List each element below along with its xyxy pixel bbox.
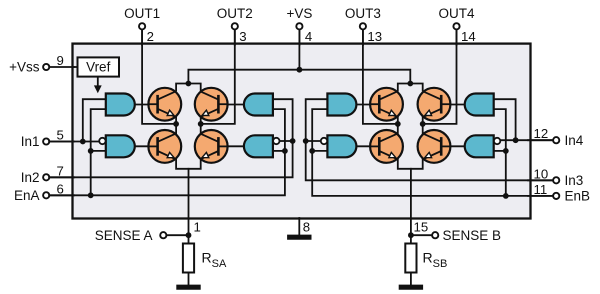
svg-text:EnA: EnA xyxy=(14,188,40,203)
transistor Q5 (bridge B upper left) xyxy=(370,88,403,121)
svg-text:In1: In1 xyxy=(21,134,40,149)
wire EnB to gate B4 lower input xyxy=(494,150,506,152)
terminal SENSE B pin 15 xyxy=(432,232,438,238)
wire EnA to gate A2 lower input xyxy=(91,150,106,152)
svg-text:OUT1: OUT1 xyxy=(124,6,160,21)
junction bridge A +VS node xyxy=(186,81,192,87)
terminal EnB pin 11 xyxy=(553,193,559,199)
wire bridge B emitter join xyxy=(398,160,423,169)
wire SENSE B stub xyxy=(411,234,432,236)
wire EnA to gate A4 lower input xyxy=(273,150,285,152)
terminal OUT2 pin 3 xyxy=(232,23,238,29)
svg-text:OUT3: OUT3 xyxy=(345,6,381,21)
transistor Q6 (bridge B lower left) xyxy=(370,130,403,163)
svg-text:In4: In4 xyxy=(565,133,584,148)
AND gate A4 (In2 inverted/EnA lower) xyxy=(244,135,273,157)
svg-text:9: 9 xyxy=(57,53,64,68)
svg-text:OUT4: OUT4 xyxy=(438,6,474,21)
wire gate B2 to Q6 base xyxy=(356,145,372,147)
wire In3 to gate B2 bubble input xyxy=(306,140,321,142)
wire gate A4 to Q4 base xyxy=(225,145,244,147)
AND gate A2 (In1 inverted/EnA lower) xyxy=(106,135,135,157)
wire SENSE A stub xyxy=(166,234,188,236)
junction In2 to gate A4 bubble xyxy=(290,138,296,144)
wire EnA to gate A1 lower input xyxy=(91,109,106,195)
junction OUT4 output node xyxy=(420,121,426,127)
transistor Q2 (bridge A lower left) xyxy=(148,130,181,163)
wire OUT1 pin stub xyxy=(141,29,143,45)
svg-text:SENSE A: SENSE A xyxy=(95,228,153,243)
svg-text:12: 12 xyxy=(534,126,549,141)
wire OUT1 to bridge node xyxy=(142,29,176,124)
ground below RSB xyxy=(399,285,423,290)
wire In4 pin stub xyxy=(528,139,553,141)
wire EnB to gate B3 lower input xyxy=(494,109,506,196)
svg-text:EnB: EnB xyxy=(565,189,591,204)
svg-text:RSB: RSB xyxy=(423,250,448,271)
terminal In1 pin 5 xyxy=(43,138,49,144)
svg-text:7: 7 xyxy=(57,163,64,178)
resistor RSA xyxy=(183,244,194,273)
junction EnB to gate B2 xyxy=(309,148,315,154)
wire +VS rail xyxy=(188,70,410,84)
svg-text:+Vss: +Vss xyxy=(9,60,40,75)
svg-text:+VS: +VS xyxy=(286,6,312,21)
AND gate B4 (In4 inverted/EnB lower) xyxy=(465,135,494,157)
transistor Q8 (bridge B lower right) xyxy=(418,130,451,163)
wire bridge B collector header xyxy=(398,84,423,91)
wire In3 horizontal and riser xyxy=(306,99,553,180)
wire half-bridge B left output stub xyxy=(397,117,399,134)
svg-text:2: 2 xyxy=(147,29,154,44)
resistor RSB xyxy=(405,244,416,273)
wire In2 pin stub xyxy=(49,176,74,178)
svg-text:In3: In3 xyxy=(565,173,584,188)
wire In4 horizontal xyxy=(500,139,553,141)
svg-text:SENSE B: SENSE B xyxy=(443,228,502,243)
svg-text:4: 4 xyxy=(305,29,312,44)
wire sense A vertical xyxy=(188,169,190,244)
junction EnB right branch xyxy=(503,193,509,199)
wire In4 to gate B3 upper input xyxy=(494,99,516,140)
wire OUT4 to bridge node xyxy=(423,29,457,124)
svg-text:6: 6 xyxy=(57,181,64,196)
wire +Vss pin stub xyxy=(49,66,74,68)
terminal OUT4 pin 14 xyxy=(453,23,459,29)
wire RSB to ground xyxy=(410,273,412,287)
junction OUT2 output node xyxy=(198,121,204,127)
terminal OUT1 pin 2 xyxy=(139,23,145,29)
ground below RSA xyxy=(176,285,200,290)
junction EnA to gate A2 xyxy=(88,148,94,154)
transistor Q3 (bridge A upper right) xyxy=(195,88,228,121)
junction +VS rail tap xyxy=(297,67,303,73)
svg-text:In2: In2 xyxy=(21,170,40,185)
wire half-bridge A right output stub xyxy=(200,117,202,134)
wire gate B3 to Q7 base xyxy=(448,104,465,106)
junction OUT1 output node xyxy=(173,121,179,127)
svg-text:OUT2: OUT2 xyxy=(217,6,253,21)
svg-text:10: 10 xyxy=(534,166,549,181)
wire bridge A emitter join xyxy=(176,160,201,169)
wire EnA pin stub xyxy=(49,194,74,196)
wire OUT2 to bridge node xyxy=(201,29,235,124)
junction sense A node xyxy=(186,232,192,238)
terminal +VS pin 4 xyxy=(296,23,302,29)
wire In2 to gate A4 bubble input xyxy=(279,140,292,142)
junction EnA to gate A4 xyxy=(282,148,288,154)
wire EnB to gate B2 lower input xyxy=(312,150,327,152)
wire EnB horizontal and left riser xyxy=(312,109,553,196)
junction In1 branch xyxy=(80,139,86,145)
wire pin 8 ground stub xyxy=(298,218,300,236)
junction EnB to gate B4 xyxy=(503,148,509,154)
wire OUT4 pin stub xyxy=(456,29,458,45)
AND gate A3 (In2/EnA upper) xyxy=(244,94,273,116)
junction OUT3 output node xyxy=(395,121,401,127)
terminal In4 pin 12 xyxy=(553,137,559,143)
svg-text:15: 15 xyxy=(414,220,429,235)
svg-text:14: 14 xyxy=(461,29,476,44)
wire In1 to gate A1 upper input xyxy=(83,99,106,141)
terminal +Vss pin 9 xyxy=(43,64,49,70)
Vref regulator box xyxy=(78,57,120,76)
svg-text:8: 8 xyxy=(303,220,310,235)
transistor Q1 (bridge A upper left) xyxy=(148,88,181,121)
terminal SENSE A pin 1 xyxy=(160,232,166,238)
wire EnA horizontal and right riser xyxy=(49,109,285,195)
svg-text:11: 11 xyxy=(534,182,548,197)
wire +Vss to Vref xyxy=(74,66,78,68)
svg-text:5: 5 xyxy=(57,128,64,143)
wire +VS pin drop xyxy=(298,29,300,69)
junction In4 branch xyxy=(513,137,519,143)
wire +VS pin stub xyxy=(298,29,300,45)
svg-text:1: 1 xyxy=(194,220,201,235)
svg-text:RSA: RSA xyxy=(202,250,227,271)
svg-text:3: 3 xyxy=(239,29,246,44)
wire In1 pin stub xyxy=(49,141,74,143)
AND gate B1 (In3/EnB upper) xyxy=(327,94,356,116)
wire EnB pin stub xyxy=(528,195,553,197)
terminal OUT3 pin 13 xyxy=(360,23,366,29)
Vref output arrow xyxy=(97,77,99,87)
wire gate B1 to Q5 base xyxy=(356,104,372,106)
wire OUT3 pin stub xyxy=(362,29,364,45)
wire sense B vertical xyxy=(410,169,412,244)
wire gate A2 to Q2 base xyxy=(135,145,151,147)
wire In3 pin stub xyxy=(528,179,553,181)
ground pin 8 xyxy=(287,235,311,240)
svg-text:Vref: Vref xyxy=(86,60,111,75)
wire In2 horizontal and riser xyxy=(49,99,292,177)
transistor Q4 (bridge A lower right) xyxy=(195,130,228,163)
junction EnA left branch xyxy=(88,192,94,198)
wire gate B4 to Q8 base xyxy=(448,145,465,147)
junction sense B node xyxy=(408,232,414,238)
AND gate A1 (In1/EnA upper) xyxy=(106,94,135,116)
wire In1 horizontal xyxy=(49,141,101,143)
IC body rectangle xyxy=(73,44,531,219)
transistor Q7 (bridge B upper right) xyxy=(418,88,451,121)
wire RSA to ground xyxy=(188,273,190,287)
terminal In3 pin 10 xyxy=(553,177,559,183)
wire half-bridge A left output stub xyxy=(175,117,177,134)
terminal EnA pin 6 xyxy=(43,192,49,198)
svg-text:13: 13 xyxy=(367,29,382,44)
junction bridge B +VS node xyxy=(407,81,413,87)
AND gate B2 (In3 inverted/EnB lower) xyxy=(327,135,356,157)
wire gate A1 to Q1 base xyxy=(135,104,151,106)
junction In3 to gate B2 bubble xyxy=(303,138,309,144)
wire half-bridge B right output stub xyxy=(422,117,424,134)
AND gate B3 (In4/EnB upper) xyxy=(465,94,494,116)
terminal In2 pin 7 xyxy=(43,174,49,180)
wire OUT2 pin stub xyxy=(234,29,236,45)
wire bridge A collector header xyxy=(176,84,201,91)
wire gate A3 to Q3 base xyxy=(225,104,244,106)
wire OUT3 to bridge node xyxy=(363,29,398,124)
